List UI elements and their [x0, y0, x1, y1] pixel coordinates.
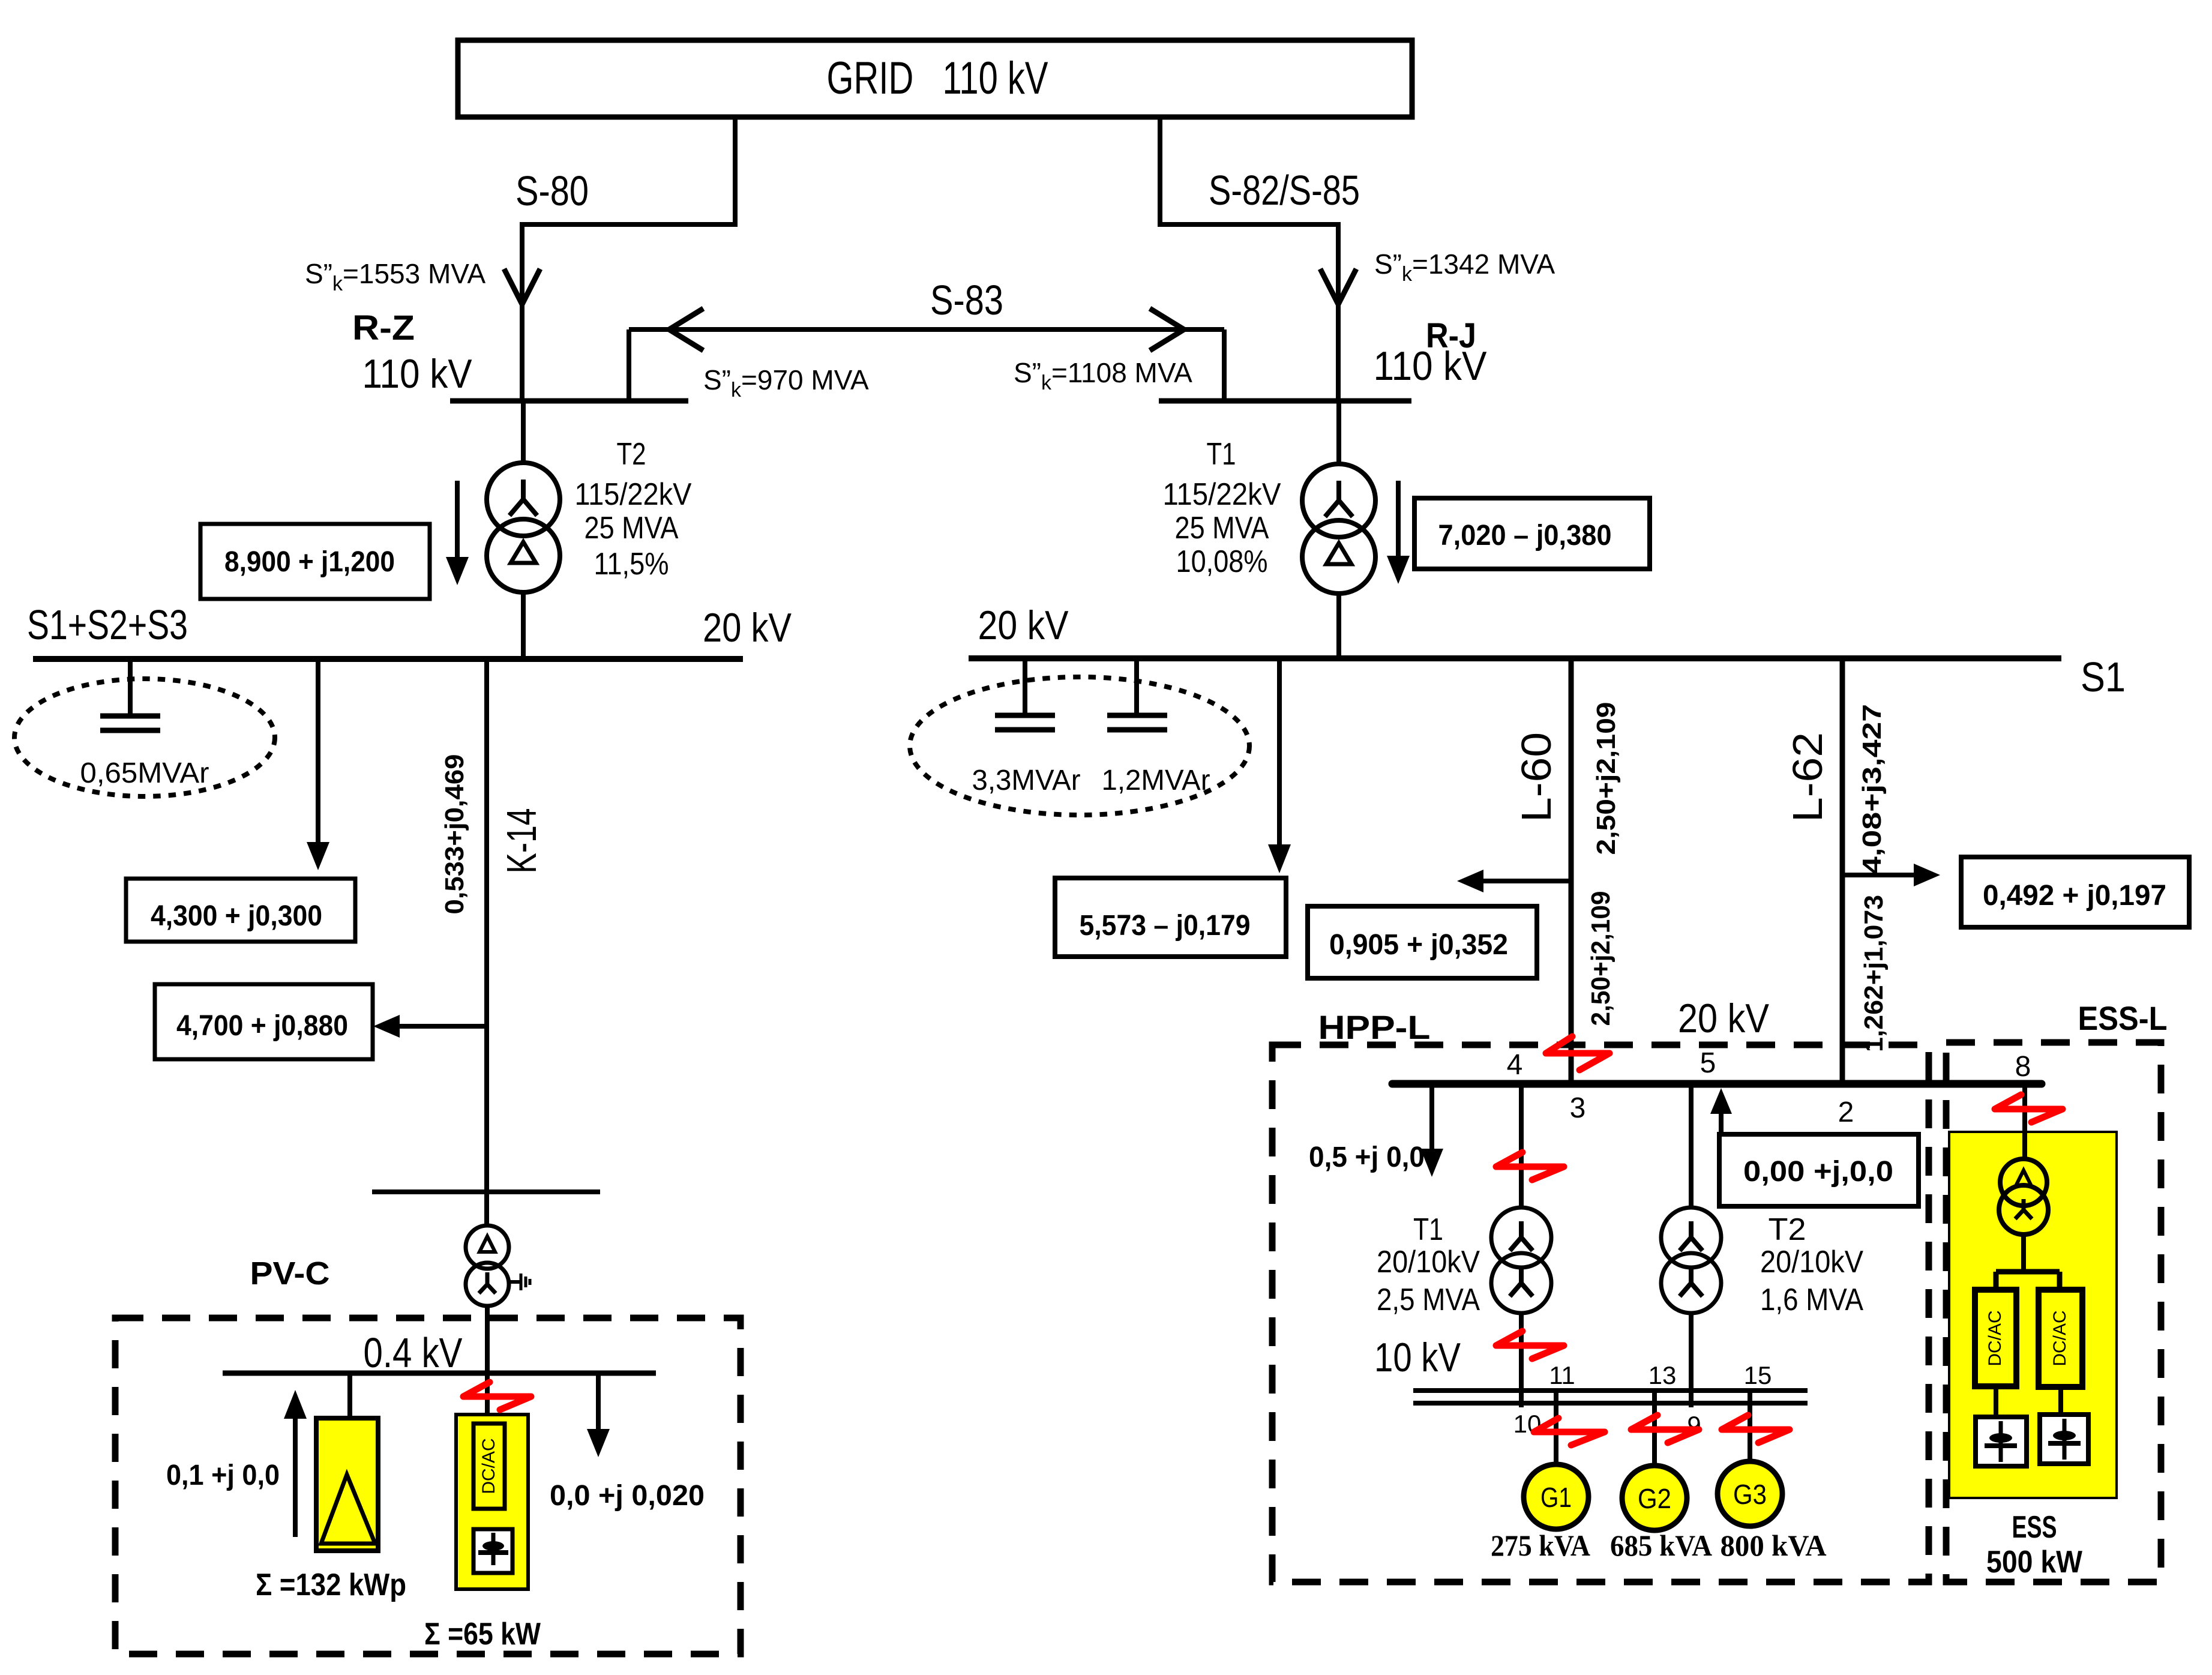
svg-text:0,1 +j 0,0: 0,1 +j 0,0: [166, 1460, 280, 1491]
svg-text:0.4 kV: 0.4 kV: [364, 1329, 463, 1376]
svg-text:7,020 – j0,380: 7,020 – j0,380: [1438, 520, 1612, 552]
svg-text:20/10kV: 20/10kV: [1377, 1245, 1480, 1280]
svg-text:2: 2: [1838, 1096, 1854, 1128]
svg-text:R-Z: R-Z: [352, 308, 415, 347]
svg-text:Σ =65 kW: Σ =65 kW: [424, 1617, 541, 1652]
svg-text:3,3MVAr: 3,3MVAr: [972, 765, 1081, 796]
svg-text:4: 4: [1507, 1049, 1523, 1081]
svg-text:0,0 +j 0,020: 0,0 +j 0,020: [550, 1480, 705, 1512]
svg-text:ESS-L: ESS-L: [2078, 999, 2168, 1037]
svg-text:G3: G3: [1733, 1479, 1767, 1510]
svg-text:15: 15: [1744, 1361, 1772, 1389]
svg-text:2,50+j2,109: 2,50+j2,109: [1591, 702, 1621, 855]
svg-text:GRID 110 kV: GRID 110 kV: [827, 53, 1048, 104]
svg-text:4,700 + j0,880: 4,700 + j0,880: [176, 1010, 348, 1042]
svg-text:T2: T2: [1769, 1212, 1806, 1247]
svg-text:0,533+j0,469: 0,533+j0,469: [440, 754, 469, 915]
svg-text:275 kVA: 275 kVA: [1491, 1529, 1590, 1562]
svg-text:10 kV: 10 kV: [1374, 1335, 1461, 1380]
svg-text:HPP-L: HPP-L: [1318, 1008, 1431, 1046]
svg-text:5,573 – j0,179: 5,573 – j0,179: [1080, 910, 1251, 942]
svg-text:4,300 + j0,300: 4,300 + j0,300: [151, 900, 322, 932]
svg-text:0,00 +j,0,0: 0,00 +j,0,0: [1743, 1156, 1893, 1188]
svg-text:5: 5: [1700, 1047, 1716, 1079]
svg-text:3: 3: [1570, 1092, 1586, 1124]
svg-text:0,5 +j 0,0: 0,5 +j 0,0: [1309, 1141, 1425, 1173]
svg-text:S-83: S-83: [930, 277, 1003, 323]
svg-text:0,905 + j0,352: 0,905 + j0,352: [1329, 929, 1508, 961]
svg-text:20/10kV: 20/10kV: [1760, 1245, 1863, 1280]
svg-text:800 kVA: 800 kVA: [1721, 1529, 1827, 1562]
svg-text:2,5 MVA: 2,5 MVA: [1377, 1283, 1480, 1317]
svg-text:0,492 + j0,197: 0,492 + j0,197: [1983, 880, 2166, 912]
svg-text:K-14: K-14: [498, 808, 545, 874]
svg-text:115/22kV: 115/22kV: [1163, 477, 1281, 512]
svg-text:S1+S2+S3: S1+S2+S3: [27, 601, 188, 648]
svg-text:S-80: S-80: [515, 167, 589, 214]
svg-text:PV-C: PV-C: [250, 1255, 330, 1292]
svg-text:1,2MVAr: 1,2MVAr: [1102, 765, 1210, 796]
svg-text:2,50+j2,109: 2,50+j2,109: [1586, 891, 1615, 1026]
svg-text:115/22kV: 115/22kV: [575, 477, 692, 512]
svg-text:T2: T2: [617, 437, 646, 472]
svg-text:G1: G1: [1540, 1482, 1572, 1513]
svg-text:1,6 MVA: 1,6 MVA: [1760, 1283, 1863, 1317]
svg-text:8: 8: [2015, 1051, 2031, 1083]
svg-text:11,5%: 11,5%: [594, 547, 669, 582]
svg-text:Σ =132 kWp: Σ =132 kWp: [256, 1568, 406, 1602]
svg-text:DC/AC: DC/AC: [2050, 1310, 2070, 1366]
svg-text:11: 11: [1549, 1361, 1575, 1389]
svg-text:4,08+j3,427: 4,08+j3,427: [1857, 704, 1887, 874]
svg-text:ESS: ESS: [2012, 1510, 2057, 1545]
svg-text:8,900 + j1,200: 8,900 + j1,200: [224, 546, 395, 578]
svg-text:25 MVA: 25 MVA: [585, 511, 679, 546]
svg-text:0,65MVAr: 0,65MVAr: [80, 757, 209, 789]
svg-text:110 kV: 110 kV: [362, 351, 473, 397]
svg-text:L-62: L-62: [1784, 732, 1831, 822]
svg-text:13: 13: [1648, 1361, 1677, 1389]
svg-text:T1: T1: [1207, 437, 1236, 472]
svg-text:DC/AC: DC/AC: [479, 1438, 499, 1494]
svg-text:20 kV: 20 kV: [703, 605, 792, 651]
svg-text:20 kV: 20 kV: [978, 603, 1069, 648]
svg-text:DC/AC: DC/AC: [1985, 1310, 2005, 1366]
svg-text:10,08%: 10,08%: [1176, 544, 1268, 579]
svg-text:20 kV: 20 kV: [1678, 996, 1770, 1041]
svg-text:G2: G2: [1638, 1483, 1671, 1514]
svg-text:1,262+j1,073: 1,262+j1,073: [1859, 895, 1889, 1052]
svg-text:110 kV: 110 kV: [1374, 343, 1488, 389]
svg-text:S-82/S-85: S-82/S-85: [1209, 167, 1360, 214]
svg-text:500 kW: 500 kW: [1986, 1545, 2083, 1580]
svg-text:685 kVA: 685 kVA: [1610, 1529, 1712, 1562]
svg-text:25 MVA: 25 MVA: [1175, 511, 1269, 546]
svg-text:T1: T1: [1413, 1212, 1443, 1247]
svg-text:S1: S1: [2081, 654, 2126, 700]
svg-text:L-60: L-60: [1513, 732, 1560, 822]
